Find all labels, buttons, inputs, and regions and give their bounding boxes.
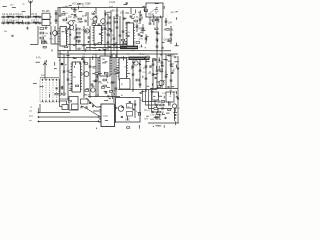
wire stub 256 — [167, 41, 170, 43]
wire v143 — [142, 24, 144, 34]
resistor R12 — [40, 37, 44, 39]
capacitor C12 — [74, 15, 77, 16]
wire segment 76 — [104, 72, 106, 75]
wire segment 251 — [65, 30, 67, 34]
resistor r242 — [72, 8, 75, 10]
capacitor C3 — [22, 16, 23, 19]
wire segment 151 — [157, 108, 159, 112]
junction 13 — [94, 11, 95, 12]
wire v84 mid — [83, 58, 85, 99]
wire q3 c — [54, 26, 56, 31]
capacitor c119 — [107, 96, 109, 97]
junction 118 — [106, 91, 107, 92]
svg-text:TUNE: TUNE — [148, 14, 155, 17]
transformer T7 — [69, 97, 78, 111]
inductor L5 — [7, 21, 12, 24]
resistor r249 — [42, 40, 45, 42]
capacitor CC11 — [98, 24, 101, 25]
wire stub 236 — [157, 113, 160, 115]
resistor R28 — [160, 104, 164, 106]
svg-text:R12: R12 — [176, 108, 180, 110]
resistor r185 — [122, 39, 125, 41]
op-amp U4 — [72, 62, 81, 92]
wire stub 78 — [115, 73, 118, 75]
resistor R14 — [77, 32, 81, 34]
capacitor C27 — [119, 35, 122, 36]
wire stub 278 — [2, 5, 6, 7]
wire stub 302 — [142, 5, 145, 7]
wire v114 mid — [113, 58, 115, 104]
transformer T6 — [166, 92, 174, 102]
wire segment 206 — [156, 66, 158, 69]
wire stub 294 — [170, 89, 172, 91]
wire stub 79 — [102, 62, 106, 64]
inductor L2 — [16, 15, 21, 18]
transformer T4 — [129, 57, 150, 60]
wire input chain 1 — [1, 16, 52, 18]
wire stub 136 — [99, 118, 101, 120]
wire stub 222 — [147, 85, 149, 87]
wire stub 27 — [44, 40, 46, 42]
wire stub 298 — [158, 125, 161, 127]
wire center bottom — [60, 98, 70, 100]
capacitor C34 — [156, 19, 159, 20]
junction jj1 — [151, 88, 152, 89]
node B — [88, 41, 90, 43]
capacitor c103 — [174, 57, 176, 58]
wire segment 241 — [77, 6, 79, 10]
wire stub 74 — [92, 73, 95, 75]
wire stub 169 — [131, 18, 134, 20]
resistor r20 — [144, 9, 147, 11]
wire v170 low — [169, 102, 171, 106]
wire stub 131 — [153, 95, 155, 97]
wire segment 245 — [141, 16, 143, 19]
resistor R21 — [103, 79, 107, 81]
wire stub 102 — [170, 65, 173, 67]
capacitor C51 — [132, 66, 135, 67]
wire segment 247 — [153, 15, 155, 19]
switch S1 contact top 4 — [52, 79, 53, 80]
wire rail drop x117 — [116, 8, 118, 14]
capacitor C58 — [152, 74, 155, 75]
resistor R11 — [40, 32, 44, 34]
capacitor c168 — [126, 3, 128, 4]
wire segment 25 — [176, 17, 178, 20]
switch S1 pole 5 — [56, 80, 58, 101]
junction 211 — [167, 60, 168, 61]
wire stub 58 — [140, 31, 142, 33]
wire segment 202 — [142, 76, 144, 78]
resistor R16 — [77, 40, 81, 42]
capacitor C35 — [165, 21, 168, 22]
capacitor C54 — [139, 84, 142, 85]
wire segment 223 — [163, 96, 165, 99]
capacitor C24 — [110, 30, 113, 31]
junction 150 — [156, 106, 157, 107]
capacitor c221 — [129, 102, 131, 103]
wire v70 — [69, 24, 71, 51]
capacitor C52 — [132, 74, 135, 75]
wire segment 264 — [176, 65, 178, 69]
capacitor C29 — [107, 42, 110, 43]
U4 pins right — [81, 64, 83, 89]
wire stub 252 — [82, 45, 86, 47]
wire segment 198 — [92, 56, 94, 60]
wire segment 250 — [49, 32, 51, 34]
U4 pins left — [70, 64, 72, 89]
junction 287 — [145, 47, 146, 48]
capacitor C68 — [162, 107, 163, 110]
capacitor C69 — [152, 111, 153, 114]
resistor R23 — [136, 79, 140, 81]
wire diag2 — [82, 106, 100, 117]
wire segment 174 — [55, 31, 57, 35]
wire bottom right rail — [148, 122, 179, 124]
resistor r67 — [85, 63, 88, 65]
wire segment 23 — [163, 6, 165, 9]
op-amp U6 — [119, 58, 127, 80]
wire stub 269 — [141, 91, 144, 93]
junction 155 — [162, 113, 163, 114]
wire rail drop x131 — [130, 8, 132, 15]
resistor r140 — [127, 127, 130, 129]
wire segment 43 — [108, 34, 110, 36]
wire segment 204 — [165, 71, 167, 75]
op-amp U3 — [127, 23, 134, 48]
wire top supply rail — [58, 7, 147, 9]
resistor R15 — [77, 36, 81, 38]
junction 307 — [152, 61, 153, 62]
wire segment 316 — [138, 125, 140, 129]
wire u7 in1 — [96, 106, 101, 108]
wire stub 110 — [84, 94, 87, 96]
wire segment 214 — [61, 86, 63, 90]
wire segment 9 — [66, 17, 68, 20]
resistor r113 — [76, 85, 79, 87]
oscillator box — [116, 98, 141, 123]
capacitor C37 — [156, 39, 159, 40]
U2 pins left — [92, 28, 94, 41]
wire segment 92 — [131, 66, 133, 69]
capacitor C36 — [156, 32, 159, 33]
wire v96 mid — [95, 54, 97, 97]
resistor r112 — [68, 100, 71, 102]
wire stub 69 — [73, 57, 77, 59]
switch S1 pole 2 — [45, 80, 47, 101]
wire segment 60 — [176, 43, 178, 46]
capacitor CC4 — [36, 16, 37, 18]
resistor R29 — [154, 108, 158, 110]
wire stub y44 — [30, 44, 38, 46]
junction r2c — [110, 44, 111, 45]
switch S1 contact top 3 — [49, 79, 50, 80]
junction jj9 — [73, 57, 74, 58]
capacitor C50 — [105, 92, 108, 93]
inductor L6 — [16, 21, 21, 24]
junction jj8 — [63, 50, 64, 51]
wire c9 — [55, 10, 57, 24]
resistor RR4 — [153, 59, 156, 61]
switch S1 contact bottom 2 — [45, 101, 46, 102]
resistor R18 — [152, 19, 156, 21]
wire segment 291 — [158, 66, 160, 69]
wire stub 180 — [94, 44, 96, 46]
wire stub 132 — [158, 95, 162, 97]
wire segment 195 — [106, 74, 108, 78]
wire segment 309 — [157, 92, 159, 96]
resistor R22 — [103, 85, 107, 87]
wire segment 96 — [152, 73, 154, 76]
wire stub 166 — [132, 13, 134, 15]
resistor r196 — [93, 67, 96, 69]
wire stub 163 — [74, 16, 78, 18]
svg-text:C 104: C 104 — [109, 2, 116, 4]
resistor r276 — [155, 117, 158, 119]
capacitor C43 — [61, 87, 64, 88]
wire stub 239 — [77, 3, 80, 5]
capacitor CC3 — [28, 16, 29, 18]
resistor R26 box — [81, 99, 89, 104]
capacitor c139 — [132, 109, 134, 110]
svg-text:IC2: IC2 — [104, 114, 109, 118]
resistor R25 box — [60, 101, 67, 107]
wire segment 65 — [46, 60, 48, 62]
junction 105 — [161, 65, 162, 66]
wire v116 mid — [115, 54, 117, 97]
capacitor C38 — [156, 46, 159, 47]
wire stub 289 — [132, 61, 135, 63]
capacitor c106 — [56, 88, 58, 89]
terminal t2 — [38, 116, 40, 118]
capacitor c265 — [171, 73, 173, 74]
transistor Q6 — [84, 72, 89, 77]
junction d3 — [95, 50, 96, 51]
wire stub 262 — [168, 60, 171, 62]
wire stub 279 — [79, 21, 83, 23]
wire stub 189 — [54, 67, 57, 69]
wire rail drop x75 — [74, 8, 76, 14]
junction rail end a — [98, 116, 100, 118]
junction 268 — [107, 82, 108, 83]
wire segment 57 — [145, 37, 147, 41]
wire segment 231 — [126, 116, 128, 120]
wire stub 243 — [79, 11, 83, 13]
switch S1 pole 3 — [49, 80, 51, 101]
capacitor CC7 — [28, 22, 29, 24]
U3 pins right — [134, 25, 136, 44]
wire mid rail 2 — [58, 53, 179, 55]
junction jj6 — [139, 53, 140, 54]
transformer T5 — [152, 92, 159, 100]
wire elbow 1 — [143, 90, 158, 102]
wire v171 low — [170, 54, 172, 89]
U3 pins left — [125, 25, 127, 44]
junction 44 — [111, 39, 112, 40]
resistor r199 — [114, 70, 117, 72]
wire stub 99 — [153, 58, 156, 60]
resistor r123 — [109, 91, 112, 93]
U6 pins right — [127, 60, 129, 76]
capacitor c295 — [167, 86, 169, 87]
capacitor C56 — [145, 78, 148, 79]
capacitor C14 — [95, 16, 98, 17]
wire stub 8 — [71, 13, 73, 15]
capacitor c63 — [162, 47, 164, 48]
wire v98 mid — [97, 58, 99, 97]
capacitor C47 — [95, 80, 98, 81]
capacitor C39 — [170, 34, 173, 35]
wire segment 41 — [104, 32, 106, 34]
U1 pins left — [58, 29, 60, 45]
wire v171 top — [170, 26, 172, 44]
wire stub 208 — [172, 70, 174, 72]
capacitor C55 — [145, 66, 148, 67]
capacitor C61 — [170, 64, 173, 65]
wire q6 b — [81, 73, 85, 75]
resistor r49 — [98, 43, 101, 45]
wire cluster join — [51, 43, 58, 45]
wire stub 200 — [145, 61, 149, 63]
wire v90 mid — [89, 58, 91, 99]
wire segment 277 — [156, 112, 158, 115]
resistor r62 — [168, 39, 171, 41]
capacitor C33 — [149, 23, 152, 24]
wire segment 190 — [71, 63, 73, 67]
capacitor C64 — [93, 105, 94, 108]
wire out line 1 — [39, 112, 71, 114]
wire segment 238 — [21, 20, 23, 23]
wire v112 mid — [111, 54, 113, 97]
wire stub 64 — [157, 33, 160, 35]
capacitor C40 electrolytic — [61, 63, 64, 66]
op-amp U5 — [100, 56, 110, 76]
capacitor C57 — [152, 64, 155, 65]
capacitor C7 — [22, 22, 23, 25]
junction 19 — [138, 12, 139, 13]
wire segment 122 — [112, 96, 114, 99]
wire segment 147 — [175, 121, 177, 125]
svg-text:4.7k: 4.7k — [36, 57, 41, 60]
switch S1 contact top 2 — [45, 79, 46, 80]
wire stub 153 — [173, 112, 177, 114]
svg-text:ant: ant — [29, 110, 32, 113]
wire v51 — [50, 26, 52, 44]
junction 254 — [107, 30, 108, 31]
wire v114 — [113, 16, 115, 51]
switch S1 contact bottom 5 — [56, 101, 57, 102]
wire v123 — [122, 10, 124, 46]
node C — [89, 102, 91, 104]
wire stub 75 — [116, 67, 119, 69]
wire v60 mid — [59, 51, 61, 97]
wire elbow 4 — [152, 90, 161, 112]
resistor R13 — [77, 28, 81, 30]
wire v146 mid — [145, 60, 147, 92]
capacitor c230 — [121, 107, 123, 108]
junction r2e — [75, 44, 76, 45]
resistor r257 — [166, 29, 169, 31]
svg-text:C9 T1: C9 T1 — [31, 14, 38, 16]
wire stub 48 — [101, 28, 104, 30]
capacitor c186 — [128, 35, 130, 36]
capacitor c15 — [140, 15, 142, 16]
capacitor C8 — [39, 22, 40, 25]
switch S1 contact bottom 4 — [52, 101, 53, 102]
switch S1 contact bottom 1 — [42, 101, 43, 102]
junction d7 — [127, 53, 128, 54]
wire pot arm — [43, 61, 47, 80]
U5 pins left — [98, 58, 100, 74]
wire v146t — [145, 34, 147, 44]
resistor r30 — [43, 46, 46, 48]
svg-text:B+ 9V: B+ 9V — [112, 10, 119, 13]
wire stub 34 — [62, 31, 65, 33]
capacitor c42 — [104, 50, 106, 51]
wire stub 205 — [159, 71, 163, 73]
wire stub 148 — [162, 114, 165, 116]
wire stub 209 — [153, 73, 157, 75]
resistor R19 — [62, 93, 66, 95]
wire v88 — [87, 12, 89, 26]
junction r2a — [89, 44, 90, 45]
wire stub 94 — [156, 73, 158, 75]
junction d1 — [69, 50, 70, 51]
junction jj3 — [113, 53, 114, 54]
U6 pins left — [117, 60, 119, 76]
wire stub 248 — [155, 3, 159, 5]
wire v137 — [136, 24, 138, 32]
wire stub 17 — [123, 4, 127, 6]
wire segment 191 — [79, 62, 81, 64]
wire v175 — [174, 108, 176, 121]
svg-text:F: F — [121, 83, 123, 87]
wire segment 71 — [75, 62, 77, 65]
U1 pins right — [67, 29, 69, 45]
wire segment 165 — [105, 12, 107, 16]
capacitor CC16 — [149, 66, 152, 67]
wire stub 18 — [123, 17, 126, 19]
resistor RR1 — [42, 42, 45, 44]
capacitor c39 — [69, 34, 71, 35]
junction 93 — [159, 60, 160, 61]
meter M1 box — [146, 3, 163, 17]
wire box drop2 — [161, 17, 163, 54]
junction 70 — [65, 64, 66, 65]
wire segment 133 — [175, 91, 177, 94]
wire v111 — [110, 10, 112, 58]
wire stub 306 — [163, 58, 166, 60]
svg-text:8R: 8R — [80, 108, 83, 110]
wire stub 3 — [72, 19, 75, 21]
wire v153 — [152, 58, 154, 89]
resistor R3 — [63, 19, 67, 21]
junction 217 — [110, 98, 111, 99]
wire segment 182 — [115, 42, 117, 45]
wire v90 — [89, 26, 91, 51]
resistor R5 — [93, 21, 97, 23]
wire v105 — [104, 10, 106, 58]
wire segment 138 — [138, 113, 140, 116]
resistor R30 box — [62, 105, 68, 110]
capacitor c233 — [174, 115, 176, 116]
wire segment 130 — [170, 91, 172, 95]
wire stub 116 — [92, 85, 95, 87]
capacitor C13 — [85, 20, 86, 23]
wire stub 219 — [111, 81, 115, 83]
wire stub 212 — [40, 85, 44, 87]
resistor r227 — [158, 86, 161, 88]
